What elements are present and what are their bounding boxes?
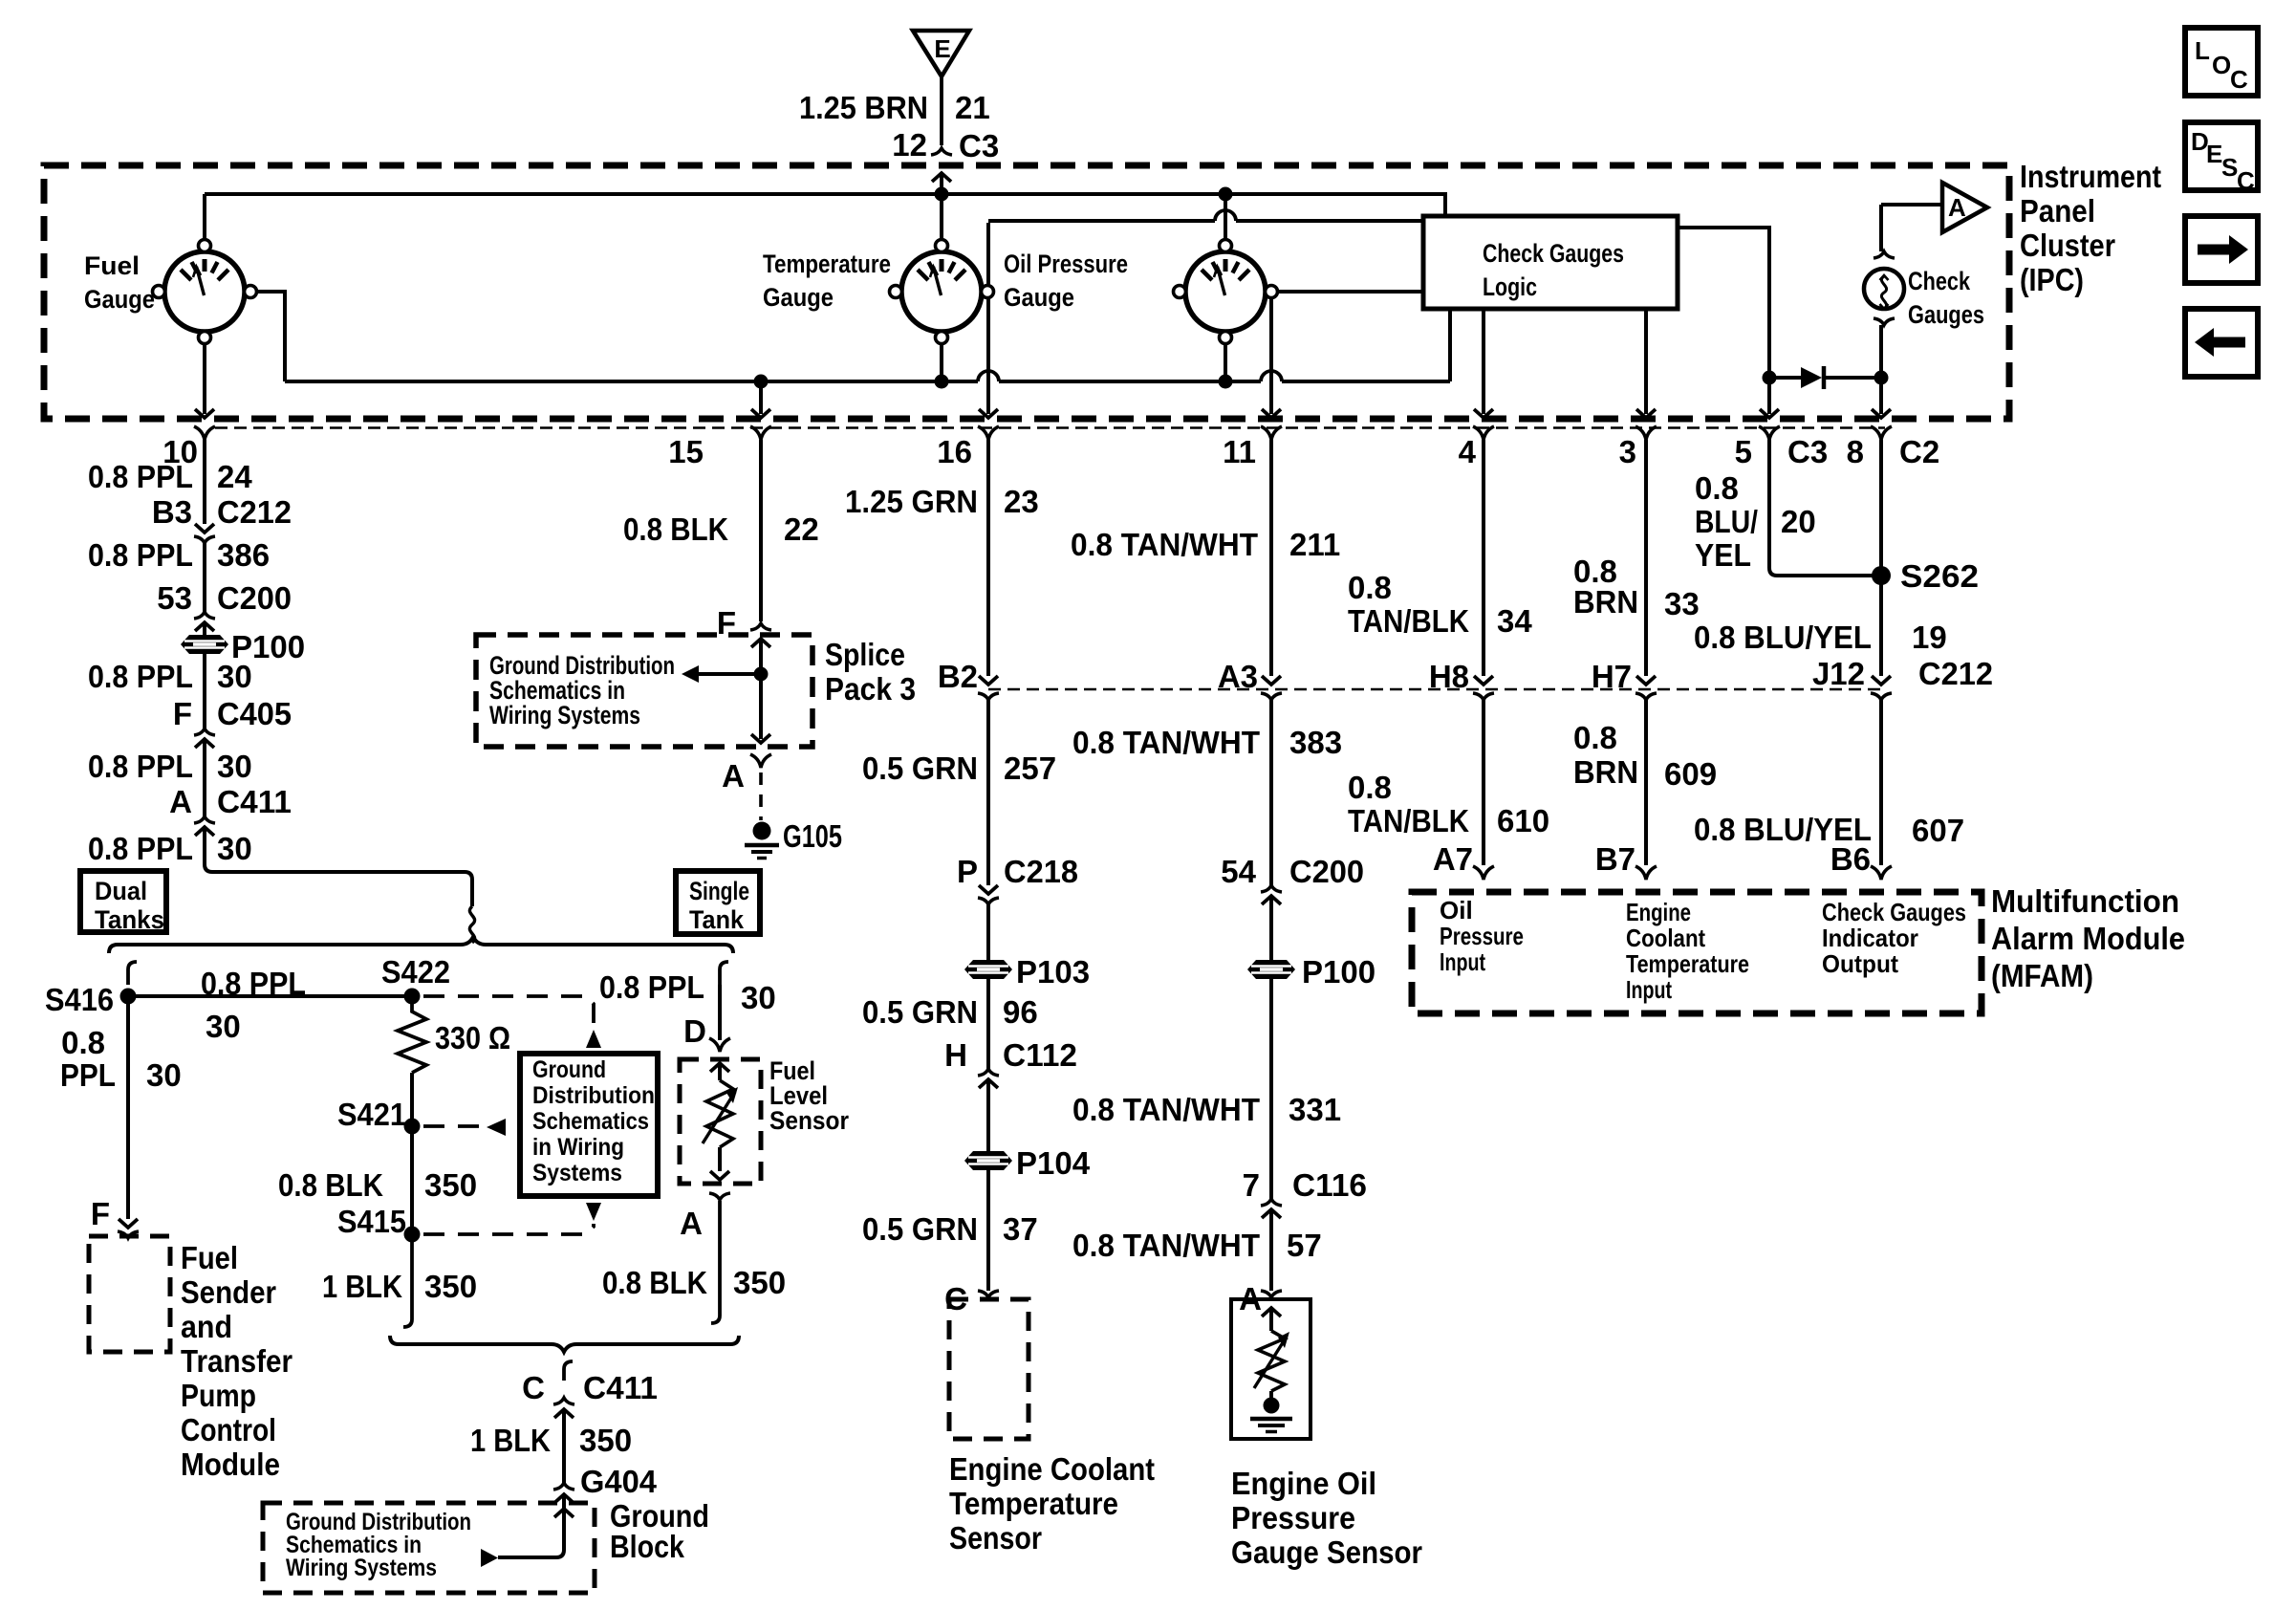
wire col1 to dual-tank split xyxy=(205,827,472,906)
Fuel Level Sensor dashed box xyxy=(680,1059,761,1184)
svg-text:B6: B6 xyxy=(1830,841,1871,877)
dashed wire to G105 xyxy=(759,772,763,820)
output triangle A xyxy=(1942,183,1987,232)
wire S415 down to brace xyxy=(403,1234,412,1327)
label 0.8 BLU/YEL 20 stacked xyxy=(1695,470,1816,573)
connector G404 xyxy=(553,1483,574,1503)
svg-text:C116: C116 xyxy=(1292,1167,1367,1203)
label 0.8 TAN/BLK 34 xyxy=(1348,570,1532,639)
svg-text:0.8 BLU/YEL: 0.8 BLU/YEL xyxy=(1694,620,1872,655)
arrowhead up inside ground block xyxy=(554,1509,574,1517)
svg-text:O: O xyxy=(2212,51,2231,79)
svg-text:0.8 TAN/WHT: 0.8 TAN/WHT xyxy=(1071,527,1258,562)
label 0.5 GRN 96 xyxy=(862,994,1038,1030)
wire S421 to S415 xyxy=(410,1126,414,1234)
svg-text:610: 610 xyxy=(1497,803,1549,838)
svg-text:607: 607 xyxy=(1912,813,1964,848)
svg-text:Temperature: Temperature xyxy=(1626,949,1749,978)
svg-text:0.8 PPL: 0.8 PPL xyxy=(88,749,193,784)
label 1 BLK 350 xyxy=(322,1269,477,1304)
svg-text:C218: C218 xyxy=(1004,854,1078,889)
svg-text:11: 11 xyxy=(1223,434,1256,469)
svg-text:C2: C2 xyxy=(1899,434,1939,469)
svg-text:Cluster: Cluster xyxy=(2020,228,2115,263)
svg-text:Control: Control xyxy=(181,1412,276,1447)
svg-text:0.8: 0.8 xyxy=(1573,720,1617,755)
svg-text:L: L xyxy=(2195,36,2210,65)
svg-text:P103: P103 xyxy=(1016,954,1090,990)
svg-text:4: 4 xyxy=(1459,434,1477,469)
wire temp gauge bottom to ground bus xyxy=(940,336,943,381)
label 0.8 PPL 24 xyxy=(88,459,252,494)
Splice Pack 3 dashed box xyxy=(476,635,812,747)
svg-text:Multifunction: Multifunction xyxy=(1991,883,2179,919)
svg-text:H: H xyxy=(944,1037,967,1073)
junction lamp column xyxy=(1874,371,1889,385)
svg-text:257: 257 xyxy=(1004,751,1056,786)
temperature gauge xyxy=(890,240,994,344)
svg-text:Temperature: Temperature xyxy=(949,1486,1118,1521)
junction diode anode xyxy=(1763,371,1777,385)
connector A3 xyxy=(1218,659,1258,694)
label 0.8 PPL 30 xyxy=(88,659,252,694)
connector 53 C200 xyxy=(157,580,292,616)
svg-text:15: 15 xyxy=(668,434,704,469)
label Fuel Gauge xyxy=(84,251,155,314)
connector B2 xyxy=(938,659,978,694)
svg-text:8: 8 xyxy=(1847,434,1864,469)
svg-text:Pressure: Pressure xyxy=(1440,922,1524,950)
branch hook right xyxy=(720,962,728,985)
svg-text:C411: C411 xyxy=(583,1370,658,1405)
svg-text:in Wiring: in Wiring xyxy=(532,1134,624,1161)
svg-text:0.8: 0.8 xyxy=(1695,470,1739,506)
svg-text:Tanks: Tanks xyxy=(95,905,164,934)
svg-text:C3: C3 xyxy=(959,128,999,163)
wire diode link xyxy=(1769,376,1881,380)
svg-text:A: A xyxy=(680,1206,703,1241)
wire col at 1552 seg2 xyxy=(1482,700,1485,865)
svg-text:Oil Pressure: Oil Pressure xyxy=(1004,250,1128,278)
svg-text:C200: C200 xyxy=(1289,854,1364,889)
junction S415 xyxy=(404,1227,421,1243)
junction oil bottom xyxy=(1219,375,1233,389)
dashed ref wire from S422 xyxy=(423,996,594,1023)
branch hook left xyxy=(128,962,137,985)
svg-text:Gauge: Gauge xyxy=(84,285,155,314)
label 0.8 TAN/WHT 211 xyxy=(1071,527,1340,562)
svg-text:350: 350 xyxy=(424,1269,477,1304)
variable resistor arrow xyxy=(1254,1332,1289,1388)
label 0.8 BLK 350 right xyxy=(602,1265,786,1300)
wire oil gauge bottom to ground bus xyxy=(1224,337,1227,381)
svg-text:Sensor: Sensor xyxy=(949,1520,1042,1556)
label 0.8 TAN/BLK 610 xyxy=(1348,770,1549,838)
label Instrument Panel Cluster (IPC) xyxy=(2020,159,2161,297)
inline connector P103 xyxy=(964,960,1012,979)
power feed triangle E xyxy=(913,31,969,76)
svg-text:0.8 TAN/WHT: 0.8 TAN/WHT xyxy=(1072,1228,1260,1263)
label 0.8 PPL 30 b xyxy=(88,749,252,784)
wire break squiggle xyxy=(469,906,474,943)
svg-text:30: 30 xyxy=(146,1057,182,1093)
label 0.8 PPL over S416-S422 xyxy=(201,966,306,1044)
svg-text:0.8 BLK: 0.8 BLK xyxy=(623,511,728,547)
Multifunction Alarm Module dashed box xyxy=(1412,892,1982,1013)
svg-text:Fuel: Fuel xyxy=(84,251,140,280)
svg-text:23: 23 xyxy=(1004,484,1039,519)
label 0.8 BLK 22 xyxy=(623,511,819,547)
label 0.8 PPL 386 xyxy=(88,537,270,573)
label 0.8 PPL 30 right branch xyxy=(599,969,776,1015)
svg-text:A3: A3 xyxy=(1218,659,1258,694)
label Ground Block xyxy=(610,1498,709,1564)
label 0.8 TAN/WHT 57 xyxy=(1072,1228,1322,1263)
sensor internal ground xyxy=(1250,1398,1292,1432)
wire oil gauge top drop xyxy=(1224,194,1227,250)
svg-text:S415: S415 xyxy=(337,1204,406,1239)
connector H8 xyxy=(1429,659,1469,694)
diode CR1 xyxy=(1801,366,1824,389)
svg-text:0.8 PPL: 0.8 PPL xyxy=(88,831,193,866)
wire col at 1722 seg1 xyxy=(1644,440,1648,676)
junction col15 tap xyxy=(754,375,769,389)
wire col16 seg2 xyxy=(986,700,990,885)
wire C411 to G404 xyxy=(562,1409,566,1485)
svg-text:BRN: BRN xyxy=(1573,584,1638,620)
svg-text:PPL: PPL xyxy=(60,1057,116,1093)
svg-text:H8: H8 xyxy=(1429,659,1469,694)
svg-text:Transfer: Transfer xyxy=(181,1343,292,1379)
connector H C112 xyxy=(944,1037,1077,1073)
arrow down xyxy=(586,1203,601,1221)
connector B3 C212 xyxy=(152,494,292,530)
Dual Tanks box xyxy=(80,871,166,932)
wire col1 seg3 xyxy=(203,654,206,729)
svg-text:7: 7 xyxy=(1243,1167,1260,1203)
oil pressure gauge xyxy=(1174,240,1278,344)
svg-text:Tank: Tank xyxy=(689,905,745,934)
wire col11 seg2 xyxy=(1269,700,1273,885)
connector A into oil sensor xyxy=(1239,1281,1262,1316)
svg-text:330 Ω: 330 Ω xyxy=(435,1020,510,1055)
svg-text:21: 21 xyxy=(955,90,990,125)
wire S416 to S422 xyxy=(128,994,412,998)
Single Tank box xyxy=(676,871,760,934)
svg-text:Alarm Module: Alarm Module xyxy=(1991,921,2185,956)
svg-text:54: 54 xyxy=(1221,854,1256,889)
svg-text:BLU/: BLU/ xyxy=(1695,504,1758,539)
svg-text:Block: Block xyxy=(610,1529,685,1564)
label Fuel Sender and Transfer Pump Control Module xyxy=(181,1240,292,1482)
label Check Gauges lamp xyxy=(1908,267,1984,329)
wire logic outputs to border cols 4 and 3 xyxy=(1474,309,1656,418)
svg-text:C3: C3 xyxy=(1787,434,1828,469)
connector H7 xyxy=(1592,659,1632,694)
svg-text:Fuel: Fuel xyxy=(181,1240,238,1275)
wire inside splice pack with arrows xyxy=(751,639,770,743)
svg-text:0.8 BLK: 0.8 BLK xyxy=(602,1265,707,1300)
svg-text:C405: C405 xyxy=(217,696,292,731)
svg-text:S421: S421 xyxy=(337,1097,406,1132)
svg-text:Gauge: Gauge xyxy=(763,283,834,312)
wire col11 seg1 xyxy=(1269,440,1273,676)
svg-text:0.8 TAN/WHT: 0.8 TAN/WHT xyxy=(1072,1092,1260,1127)
svg-text:Pump: Pump xyxy=(181,1378,256,1413)
svg-text:331: 331 xyxy=(1289,1092,1341,1127)
wire power bus y=203 xyxy=(205,192,1445,196)
svg-text:Single: Single xyxy=(689,877,749,905)
wire col11 seg5 xyxy=(1269,1209,1273,1291)
wire col15 ground stem to border xyxy=(751,381,770,418)
label 0.8 BRN 609 xyxy=(1573,720,1717,792)
svg-text:BRN: BRN xyxy=(1573,754,1638,790)
label 0.8 BLU/YEL 607 xyxy=(1694,812,1964,848)
fuel level sensor variable arrow xyxy=(703,1087,738,1143)
LOC box xyxy=(2185,28,2258,96)
svg-text:53: 53 xyxy=(157,580,192,616)
junction S262 xyxy=(1872,566,1891,585)
svg-text:C: C xyxy=(2230,65,2248,94)
svg-text:Gauges: Gauges xyxy=(1908,300,1984,329)
svg-text:F: F xyxy=(91,1196,110,1231)
svg-text:Splice: Splice xyxy=(825,637,905,672)
svg-text:D: D xyxy=(683,1013,706,1049)
label 0.8 BLK 350 xyxy=(278,1167,477,1203)
hop temp sender wire over oil top drop xyxy=(1215,210,1236,221)
Fuel Sender dashed box xyxy=(89,1236,170,1352)
svg-text:30: 30 xyxy=(217,659,252,694)
label 12 C3 xyxy=(892,127,999,163)
splice junction dot xyxy=(754,667,769,682)
svg-text:0.8: 0.8 xyxy=(1348,770,1392,805)
connector D into fuel level sensor xyxy=(709,1038,730,1052)
label 0.8 BRN 33 xyxy=(1573,554,1700,621)
svg-text:386: 386 xyxy=(217,537,270,573)
svg-text:C411: C411 xyxy=(217,784,292,819)
label 0.8 PPL 30 left xyxy=(60,1025,182,1093)
connector B7 into MFAM xyxy=(1595,841,1635,877)
svg-text:Gauge: Gauge xyxy=(1004,283,1074,312)
junction oil top on power bus xyxy=(1219,187,1233,202)
svg-text:C200: C200 xyxy=(217,580,292,616)
svg-text:H7: H7 xyxy=(1592,659,1632,694)
svg-text:Sender: Sender xyxy=(181,1274,276,1310)
svg-text:Distribution: Distribution xyxy=(532,1082,655,1109)
wire col11 seg4 xyxy=(1269,979,1273,1199)
wire temp sender: right terminal up and across to logic box xyxy=(979,221,1423,418)
svg-text:609: 609 xyxy=(1664,756,1717,792)
label 0.8 TAN/WHT 383 xyxy=(1072,725,1342,760)
lower brace xyxy=(390,1336,739,1352)
svg-text:F: F xyxy=(173,696,192,731)
svg-text:Check Gauges: Check Gauges xyxy=(1822,898,1966,926)
svg-text:P100: P100 xyxy=(1302,954,1375,990)
svg-text:1.25 BRN: 1.25 BRN xyxy=(799,90,928,125)
svg-text:Engine Oil: Engine Oil xyxy=(1231,1466,1376,1501)
label Engine Coolant Temperature Input xyxy=(1626,898,1749,1004)
label Oil Pressure Input xyxy=(1440,896,1524,976)
svg-text:Check Gauges: Check Gauges xyxy=(1483,239,1624,268)
junction temp bottom xyxy=(935,375,949,389)
label D xyxy=(683,1013,706,1049)
dashed ref wire from S415 xyxy=(423,1224,594,1234)
svg-text:G105: G105 xyxy=(783,818,842,854)
connector J12 C212 xyxy=(1812,656,1993,691)
svg-text:Ground: Ground xyxy=(532,1056,606,1083)
svg-text:and: and xyxy=(181,1309,232,1344)
check gauges lamp DS1 xyxy=(1864,251,1904,325)
svg-text:0.8 BLK: 0.8 BLK xyxy=(278,1167,383,1203)
svg-text:19: 19 xyxy=(1912,620,1947,655)
wire into ground block xyxy=(498,1494,564,1557)
svg-text:350: 350 xyxy=(424,1167,477,1203)
svg-text:B7: B7 xyxy=(1595,841,1635,877)
wire col8 seg2 xyxy=(1879,700,1883,865)
inline connector P104 xyxy=(964,1151,1012,1170)
label 0.8 BLU/YEL 19 xyxy=(1694,620,1947,655)
junction temp/E on power bus xyxy=(935,187,949,202)
svg-text:Module: Module xyxy=(181,1447,280,1482)
svg-text:16: 16 xyxy=(937,434,972,469)
wire col1 seg1 xyxy=(203,440,206,524)
label S422 xyxy=(381,954,450,990)
svg-text:P104: P104 xyxy=(1016,1145,1091,1181)
Ground Block dashed box xyxy=(263,1503,595,1593)
svg-text:B3: B3 xyxy=(152,494,192,530)
svg-text:C: C xyxy=(2237,166,2255,195)
wire lamp top to A triangle xyxy=(1881,205,1940,251)
Ground Distribution reference box xyxy=(520,1054,658,1196)
svg-text:33: 33 xyxy=(1664,586,1700,621)
wire fuel gauge right to ground bus xyxy=(250,292,285,381)
svg-text:Temperature: Temperature xyxy=(763,250,891,278)
svg-text:Systems: Systems xyxy=(532,1160,622,1186)
wire fuel gauge top stem xyxy=(203,194,206,248)
wire col at 1722 seg2 xyxy=(1644,700,1648,865)
svg-text:A7: A7 xyxy=(1433,841,1473,877)
svg-text:(MFAM): (MFAM) xyxy=(1991,958,2093,993)
boundary female connectors row xyxy=(194,426,1892,440)
svg-text:Logic: Logic xyxy=(1483,272,1537,301)
svg-text:57: 57 xyxy=(1287,1228,1322,1263)
svg-text:Pressure: Pressure xyxy=(1231,1500,1355,1535)
label F fuel sender xyxy=(91,1196,110,1231)
connector line C218/C200 boundary y=721 xyxy=(988,688,1881,691)
svg-text:30: 30 xyxy=(217,749,252,784)
label Temperature Gauge xyxy=(763,250,891,312)
svg-text:TAN/BLK: TAN/BLK xyxy=(1348,803,1469,838)
svg-text:A: A xyxy=(722,758,745,794)
Check Gauges Logic box U1 xyxy=(1423,216,1678,309)
junction S422 xyxy=(404,989,421,1005)
fuel gauge xyxy=(153,240,257,344)
label G404 xyxy=(580,1464,658,1499)
connector 7 C116 xyxy=(1243,1167,1367,1203)
wire col16 seg6 xyxy=(986,1170,990,1291)
connector P C218 xyxy=(957,854,1078,889)
label 0.8 TAN/WHT 331 xyxy=(1072,1092,1341,1127)
label S416 xyxy=(45,982,114,1017)
svg-text:1 BLK: 1 BLK xyxy=(470,1423,551,1458)
connector A below splice xyxy=(750,754,771,768)
inline connector P100 b xyxy=(1247,960,1295,979)
svg-text:Schematics: Schematics xyxy=(532,1108,649,1135)
wire ground bus rise into logic box bottom xyxy=(1448,309,1452,381)
hop over col16 xyxy=(978,371,999,381)
label 1 BLK 350 bottom xyxy=(470,1423,632,1458)
svg-text:Pack 3: Pack 3 xyxy=(825,671,916,707)
upper brace xyxy=(109,937,733,953)
wire logic right output to col 5 xyxy=(1678,228,1779,418)
svg-text:Input: Input xyxy=(1626,975,1672,1004)
svg-text:Oil: Oil xyxy=(1440,896,1473,925)
inline connector P100 xyxy=(181,635,228,654)
svg-text:30: 30 xyxy=(741,980,776,1015)
svg-text:C112: C112 xyxy=(1003,1037,1077,1073)
svg-text:0.8 PPL: 0.8 PPL xyxy=(88,537,193,573)
connector into fuel sender xyxy=(118,1219,139,1238)
svg-text:C212: C212 xyxy=(217,494,292,530)
svg-text:1.25 GRN: 1.25 GRN xyxy=(845,484,978,519)
svg-text:5: 5 xyxy=(1735,434,1752,469)
label Splice Pack 3 xyxy=(825,637,916,707)
svg-text:C: C xyxy=(522,1370,545,1405)
Engine Coolant Temperature Sensor dashed box xyxy=(949,1299,1029,1439)
svg-text:96: 96 xyxy=(1003,994,1038,1030)
svg-text:Engine Coolant: Engine Coolant xyxy=(949,1451,1155,1487)
svg-text:0.8 PPL: 0.8 PPL xyxy=(88,459,193,494)
svg-text:0.8 TAN/WHT: 0.8 TAN/WHT xyxy=(1072,725,1260,760)
label Engine Coolant Temperature Sensor xyxy=(949,1451,1155,1556)
svg-text:0.8 PPL: 0.8 PPL xyxy=(599,969,704,1005)
wire col16 seg1 xyxy=(986,440,990,676)
label Fuel Level Sensor xyxy=(769,1056,849,1135)
connector B6 into MFAM xyxy=(1830,841,1871,877)
svg-text:B2: B2 xyxy=(938,659,978,694)
right arrow box xyxy=(2185,216,2258,283)
connector C into ECT sensor xyxy=(944,1281,967,1316)
svg-text:22: 22 xyxy=(784,511,819,547)
label 1.25 BRN 21 xyxy=(799,90,990,125)
svg-text:E: E xyxy=(2206,140,2222,168)
svg-text:S: S xyxy=(2221,153,2238,182)
label 0.5 GRN 37 xyxy=(862,1211,1038,1247)
svg-text:Gauge Sensor: Gauge Sensor xyxy=(1231,1534,1422,1570)
svg-text:Check: Check xyxy=(1908,267,1971,295)
connector A below sensor xyxy=(709,1193,730,1200)
svg-text:E: E xyxy=(934,34,950,63)
wire E stem down to temp gauge top xyxy=(932,173,951,248)
arrow left xyxy=(487,1119,506,1136)
svg-text:0.5 GRN: 0.5 GRN xyxy=(862,1211,978,1247)
svg-text:YEL: YEL xyxy=(1695,537,1751,573)
wire oil sender: right terminal across to logic box and down xyxy=(1262,292,1423,418)
wire S422 to S421 xyxy=(410,1073,414,1126)
connector 54 C200 xyxy=(1221,854,1364,889)
svg-text:211: 211 xyxy=(1289,527,1340,562)
wire col16 seg5 xyxy=(986,1079,990,1151)
svg-text:0.8: 0.8 xyxy=(61,1025,105,1060)
junction S416 xyxy=(120,989,137,1005)
svg-text:Dual: Dual xyxy=(95,877,147,905)
splice reference arrow xyxy=(682,665,761,683)
svg-text:Engine: Engine xyxy=(1626,898,1691,926)
wire from E to IPC connector 12 C3 xyxy=(931,76,952,155)
left arrow box xyxy=(2185,309,2258,377)
label 1.25 GRN 23 xyxy=(845,484,1039,519)
svg-text:Indicator: Indicator xyxy=(1822,924,1918,952)
